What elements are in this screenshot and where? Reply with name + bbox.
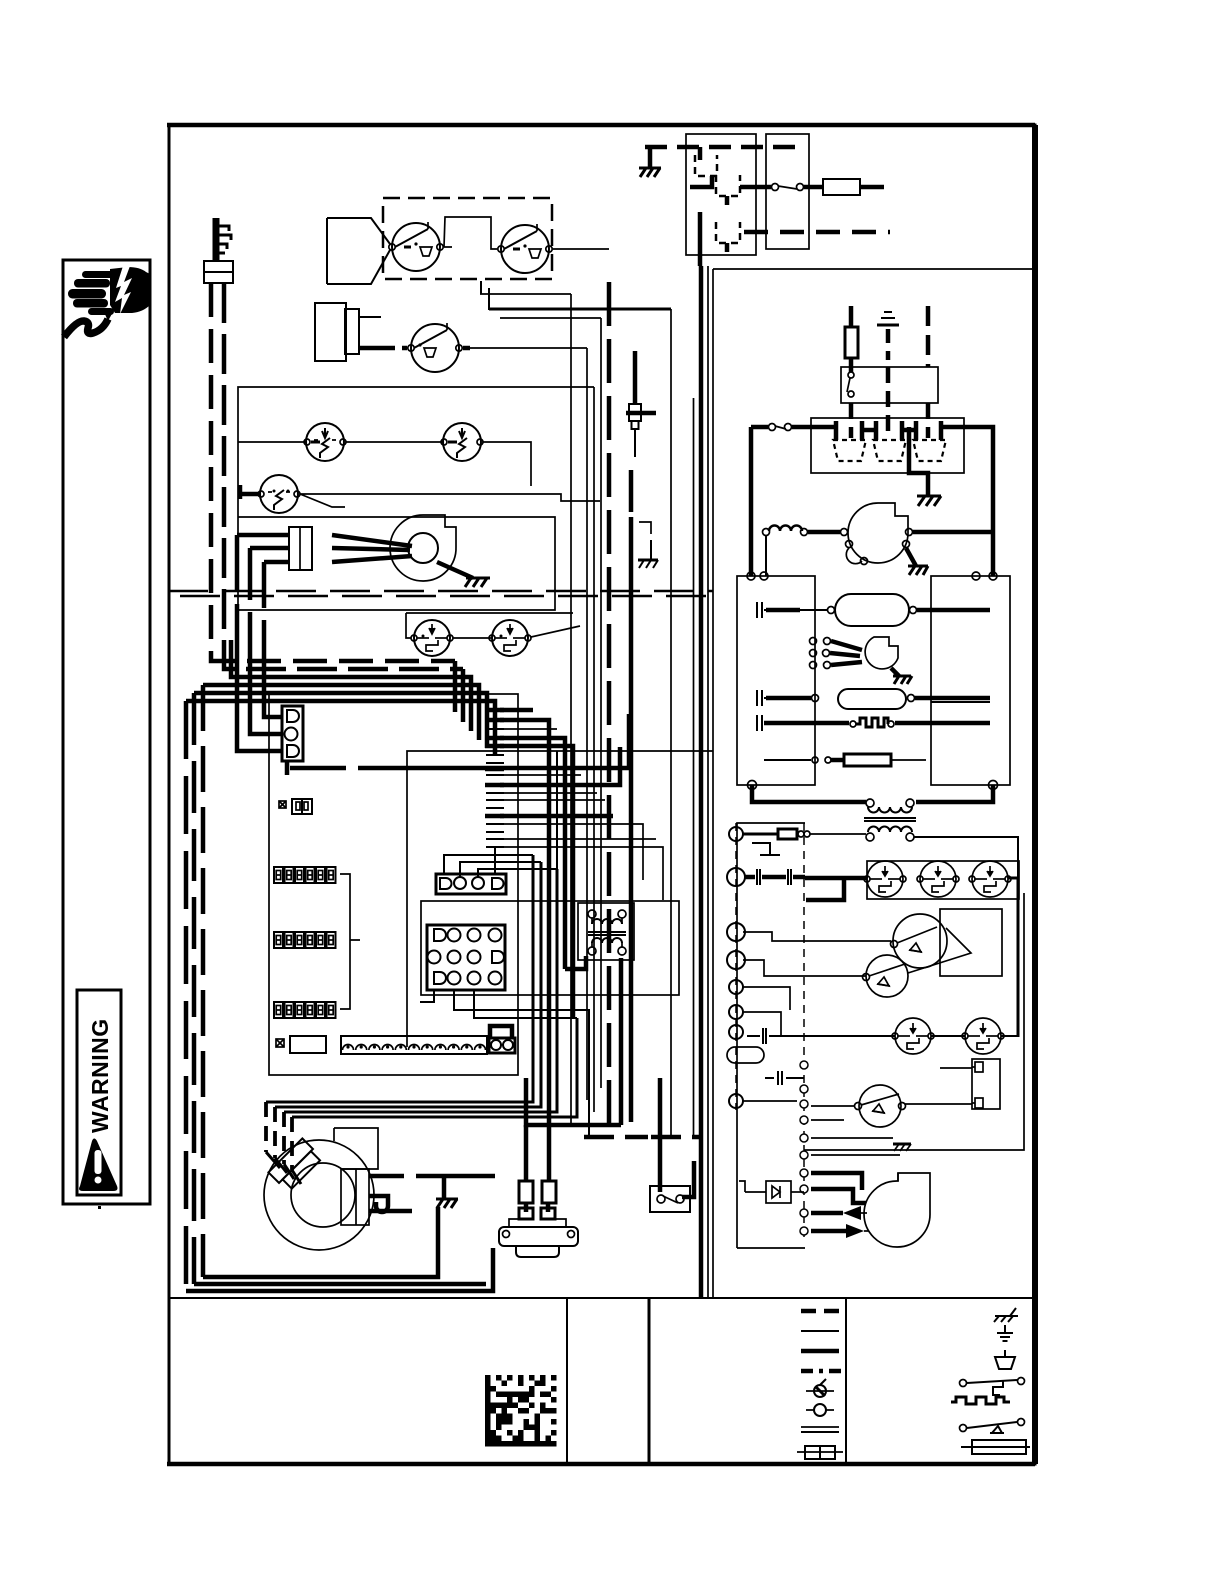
data matrix QR code <box>485 1375 557 1447</box>
title block top line <box>169 1297 1035 1299</box>
aux limit L2 <box>441 423 483 461</box>
wire to S1 <box>327 218 390 284</box>
pressure switch box PS <box>841 367 938 403</box>
heat element capsule 1 <box>757 594 990 626</box>
P2 lever wire <box>531 626 580 637</box>
legend line samples cell <box>797 1311 843 1459</box>
heavy dash junction y1137 <box>584 1135 703 1140</box>
heavy wire y769 <box>627 714 632 768</box>
blower door switch S3 <box>402 323 470 372</box>
M2 ground <box>906 548 928 575</box>
main blower motor M4 outer <box>264 1128 378 1250</box>
terminal 5 <box>729 980 743 994</box>
bundle wire B <box>461 669 466 722</box>
bundle wire E <box>194 693 487 748</box>
plug contact 2 <box>873 421 906 461</box>
wire S3 to right <box>470 347 587 349</box>
terminal 2 <box>727 868 745 886</box>
bundle wire A <box>453 661 458 712</box>
heavy loop wire C <box>186 1248 493 1291</box>
P1 feed wire <box>406 613 573 638</box>
terminal 1 <box>729 827 743 841</box>
stray dot <box>98 1206 101 1209</box>
heater element zigzag row <box>757 715 990 731</box>
CN drop 3 <box>264 562 283 717</box>
stub wire y710 <box>500 708 533 713</box>
stub wire y800 <box>500 799 605 801</box>
bundle drop x194 dashed to bottom <box>192 693 197 1284</box>
right outline <box>804 893 1024 1150</box>
pressure switch P2 <box>489 620 531 656</box>
wire from S2 right <box>553 248 609 250</box>
rollout box <box>867 861 1019 899</box>
cap x778 <box>765 1071 804 1085</box>
stub column <box>485 710 504 847</box>
12-pin connector <box>427 925 505 990</box>
3-pin power connector <box>282 706 303 761</box>
terminal strip dashed <box>735 823 737 1110</box>
line voltage feed x701 thick <box>699 266 704 1297</box>
chassis ground top <box>639 147 661 177</box>
ignition transformer T3 <box>499 1208 578 1257</box>
board ground stub <box>287 761 629 775</box>
terminal 3 <box>727 923 745 941</box>
line transformer T1 <box>864 799 916 841</box>
main limit ML1 <box>891 914 948 968</box>
wire vertical x594 <box>593 387 595 1112</box>
HSI wire 1 <box>211 283 455 661</box>
terminal 6 <box>729 1005 743 1019</box>
CN left wires <box>237 535 289 562</box>
top left circuit area <box>204 198 671 669</box>
fuse link 1 <box>519 1125 533 1212</box>
door switch box 2 <box>766 134 809 249</box>
door switch DS <box>650 1186 690 1212</box>
M4 plug diagonal <box>268 1138 322 1192</box>
T2 secondary heavy wires <box>565 956 586 969</box>
dip switch row 3 <box>274 1002 336 1018</box>
fuse link 2 <box>542 1181 556 1212</box>
DS wires <box>658 1078 663 1192</box>
interlock switch SW2 <box>772 184 804 191</box>
inducer connector CN <box>289 527 312 570</box>
chassis ground plug <box>917 496 941 506</box>
title block divider 3 <box>845 1298 847 1464</box>
warning box <box>63 260 150 1204</box>
wire vertical x694 <box>693 398 695 1137</box>
heavy loop wire A <box>203 1207 438 1277</box>
M4 lead 3 <box>369 1209 412 1214</box>
24V section box <box>737 823 805 1248</box>
M1 ground lead <box>437 562 473 578</box>
wire row y294 <box>480 293 571 295</box>
bundle wire C <box>231 640 471 731</box>
section divider (line/low voltage) <box>712 269 714 1298</box>
terminal 4 <box>727 951 745 969</box>
bundle wire F <box>186 701 495 756</box>
wire row y318 <box>500 317 601 319</box>
wire vertical x587 <box>586 348 588 1100</box>
stub wire y720 <box>500 720 549 1181</box>
fan relay FR <box>972 1059 1000 1109</box>
t8 wire <box>743 1100 797 1102</box>
limit switch S1 <box>389 222 443 271</box>
wire S1-S2 bridge <box>444 217 497 249</box>
inducer motor M2 <box>841 503 913 565</box>
resistor R1 vertical <box>845 306 858 372</box>
bracket dashes <box>650 540 652 560</box>
plug dashes below PS <box>851 367 928 438</box>
limit switch S2 <box>498 224 552 273</box>
arrow wire right <box>811 1224 869 1238</box>
wire to L3 dash <box>240 485 260 499</box>
fuse resistor 24v <box>743 829 866 839</box>
HSI wire 2 <box>224 283 463 669</box>
inducer motor M1 <box>390 515 456 581</box>
terminal 7 <box>729 1025 743 1039</box>
M1 chassis ground <box>465 578 490 587</box>
dip bracket <box>340 874 360 1009</box>
top right line voltage area <box>639 134 993 576</box>
stub wire y847 <box>500 847 663 900</box>
stub wire y738 <box>500 738 565 969</box>
diode module <box>739 1181 804 1203</box>
wire P1-P2 <box>453 637 492 639</box>
dip switch pair <box>279 799 312 814</box>
relay clip 3 <box>716 222 740 243</box>
L2 feed heavy right <box>792 427 993 576</box>
wire row y309 <box>481 281 671 309</box>
low voltage dashed separator line <box>168 591 713 596</box>
sensor bracket to ground <box>639 522 651 534</box>
wire vertical x571 <box>570 294 572 1124</box>
lower thin wires <box>811 1120 900 1155</box>
M2 feed wires <box>808 530 993 535</box>
bottom left blower area <box>186 855 703 1291</box>
bottom heavy bus <box>752 785 993 802</box>
heavy loop wire B <box>194 1282 486 1287</box>
door interlock block <box>315 303 395 361</box>
harness dashed drops <box>266 1102 292 1170</box>
earth ground symbol <box>877 312 899 360</box>
stub wire y746 <box>500 746 573 1018</box>
title block divider 2 <box>648 1298 651 1464</box>
right section inner box top <box>713 268 1035 270</box>
stub wire y793 <box>500 792 597 794</box>
pointer triangle <box>908 928 971 973</box>
T1 secondary wire right <box>914 837 1018 878</box>
stub wire y729 <box>500 728 557 730</box>
blower motor M3 <box>864 1173 930 1247</box>
heater left bank <box>737 576 815 785</box>
title block divider 1 <box>566 1298 568 1464</box>
connector area outline <box>407 751 713 1047</box>
rollout switch RS3 <box>969 861 1011 897</box>
chassis ground mid <box>638 560 658 568</box>
relay clip 1 <box>695 155 717 176</box>
main line switch <box>751 424 792 431</box>
edge connector end terminals <box>489 1026 515 1053</box>
control board outline <box>269 694 518 1075</box>
shock hazard hand icon <box>64 266 150 337</box>
fuse F1 <box>804 179 884 195</box>
stub wire y816 <box>500 814 613 819</box>
M4 lead hook <box>369 1196 388 1212</box>
inducer choke coil <box>763 526 808 577</box>
wire x437 from lead1 <box>437 1174 495 1179</box>
stub wire y824 <box>500 824 643 880</box>
limit wires <box>743 932 891 976</box>
wire L3 right + lever <box>300 494 600 507</box>
dash wire y232 <box>744 230 890 235</box>
pressure switch PS2 <box>855 1085 906 1127</box>
M4 chassis ground <box>436 1199 458 1208</box>
wire vertical x631 heavy <box>629 470 634 1122</box>
wire to L1 <box>238 441 306 443</box>
aux limit switch A1 <box>892 1018 934 1054</box>
harness diagonals into plug <box>266 1152 301 1184</box>
wire t5 <box>743 987 790 1010</box>
inner connector box <box>421 901 679 995</box>
relay clip 2 <box>716 175 740 196</box>
board status box <box>276 1036 326 1053</box>
primary limit L3 <box>258 475 300 513</box>
blower wire harness 4 lines <box>266 855 577 1117</box>
stub wire y839 <box>500 838 656 840</box>
circulator blower M5 <box>810 637 913 684</box>
wire vertical x601 <box>600 318 602 1088</box>
wire vertical x609 heavy dashed <box>607 282 612 1137</box>
L1 feed heavy left <box>749 427 754 576</box>
conn lower wires <box>420 990 589 1137</box>
dip switch row 1 <box>274 867 336 883</box>
middle limit box area <box>237 387 600 751</box>
M4 rotor <box>291 1163 355 1227</box>
cap row y877 <box>745 869 805 885</box>
heater right bank <box>931 576 1010 785</box>
outer border frame <box>167 125 1035 1464</box>
rollout switch RS1 <box>864 861 906 897</box>
CN motor leads <box>332 535 412 562</box>
neutral plug ground wire <box>909 427 928 496</box>
bracket under resistor <box>752 843 780 855</box>
relay internal wires <box>690 147 771 266</box>
chassis ground right <box>893 1144 911 1151</box>
M4 stator box <box>341 1169 369 1225</box>
plug contact 1 <box>833 421 866 461</box>
bundle wire D <box>203 685 479 740</box>
transformer primary relay box <box>686 134 756 255</box>
plug contact 3 <box>913 421 946 461</box>
hot surface igniter HSI <box>204 218 233 283</box>
low volt transformer T2 <box>578 903 634 960</box>
bank terminals <box>747 572 998 790</box>
strip2 terminals <box>800 1061 808 1235</box>
heater section <box>737 503 1018 878</box>
wire L1-L2 <box>346 441 444 443</box>
low voltage section <box>727 823 1024 1248</box>
integrated control board <box>186 640 629 1291</box>
flame rollout dashed box <box>383 198 552 279</box>
middle column vertical wires <box>571 266 708 1297</box>
wire vertical x533b <box>532 902 534 1102</box>
dash wire x928 <box>926 306 931 367</box>
svg-text:WARNING: WARNING <box>87 1018 113 1133</box>
bundle drop x203 dashed to bottom <box>201 685 206 1277</box>
legend symbols cell <box>951 1308 1030 1454</box>
M4 lead 1 <box>369 1174 437 1179</box>
heavy jog wire <box>806 878 844 900</box>
arrow wire left <box>811 1206 867 1220</box>
conn riser wires <box>444 751 557 877</box>
heavy corner x549 <box>526 1078 621 1125</box>
aux limit switch A2 <box>962 1018 1004 1054</box>
board right wiring area <box>407 710 713 1181</box>
wire vertical x708 <box>707 266 709 1297</box>
4-pin connector <box>436 874 506 894</box>
cap pair y1036 <box>747 1028 790 1044</box>
terminal 8 <box>729 1094 743 1108</box>
bundle drop x186 dashed to bottom <box>184 701 189 1291</box>
stub wire y785 <box>500 747 620 785</box>
CN drop 1 <box>237 535 283 751</box>
rollout right drop <box>1008 878 1018 1037</box>
main limit ML2 <box>863 955 909 997</box>
CN drop 2 <box>250 548 283 734</box>
wire vertical x671 <box>670 309 672 1137</box>
M4 ground wire <box>442 1176 447 1199</box>
aux row wires <box>790 1035 1017 1037</box>
middle box outline <box>238 387 594 610</box>
heavy down wire <box>811 1173 862 1190</box>
heat element capsule 2 <box>757 689 990 709</box>
24v box bottom <box>737 1247 805 1249</box>
terminal strip 2 dashed <box>803 823 805 1240</box>
flame sensor FS <box>626 351 656 457</box>
limit pointer box <box>940 909 1002 976</box>
stub wire y775 <box>500 774 581 776</box>
dip switch row 2 <box>274 932 336 948</box>
M3 feed heavy <box>811 1189 866 1203</box>
PS2 wires <box>811 1068 972 1106</box>
rollout feed <box>805 876 867 881</box>
wire t6 <box>743 1012 781 1036</box>
wire L2 right <box>483 442 531 486</box>
thermostat edge connector <box>341 1036 487 1054</box>
warning label WARNING <box>77 990 121 1195</box>
pressure switch P1 <box>411 620 453 656</box>
aux limit L1 <box>304 423 346 461</box>
line feed dash wire <box>645 145 800 150</box>
molex plug box <box>811 418 964 473</box>
resistor row <box>764 754 926 766</box>
capsule 24v <box>727 1047 764 1063</box>
rollout switch RS2 <box>917 861 959 897</box>
